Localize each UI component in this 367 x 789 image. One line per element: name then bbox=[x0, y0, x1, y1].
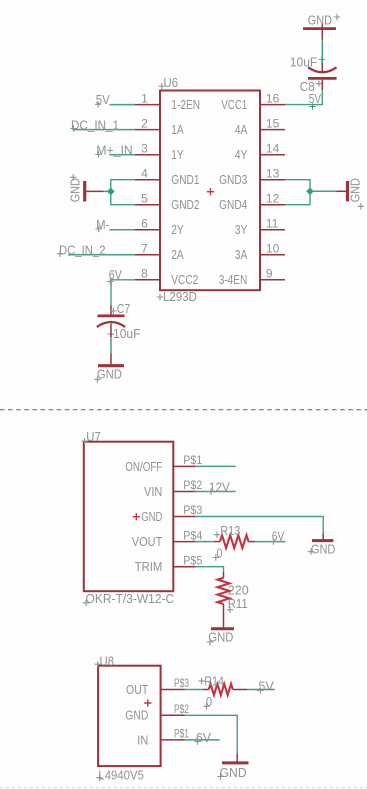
svg-text:R14: R14 bbox=[204, 673, 224, 688]
U6 pin 6 stub bbox=[135, 229, 160, 231]
capacitor C7 bbox=[98, 314, 125, 317]
svg-text:U6: U6 bbox=[164, 75, 179, 90]
wire U8 GND P$2 to ground bbox=[185, 715, 237, 753]
junction pins 4-5 bbox=[107, 188, 115, 196]
svg-text:0: 0 bbox=[216, 546, 222, 561]
R13 right lead bbox=[249, 541, 255, 543]
ground GND (U8) bbox=[222, 761, 249, 764]
faint dotted line at bottom bbox=[0, 787, 367, 789]
svg-text:DC_IN_2: DC_IN_2 bbox=[59, 242, 106, 257]
wire net 6V from R13 bbox=[255, 541, 286, 543]
U6 pin 7 stub bbox=[135, 254, 160, 256]
R11 zigzag bbox=[218, 578, 230, 604]
svg-text:4Y: 4Y bbox=[235, 147, 248, 162]
GND symbol pin (U7 P$3) bbox=[322, 533, 324, 539]
svg-text:IN: IN bbox=[137, 732, 148, 747]
wire net 6V at U8 IN bbox=[185, 739, 220, 741]
wire net 12V at U7 P$2 bbox=[196, 491, 236, 493]
U6 pin 14 stub bbox=[260, 154, 285, 156]
wire junction to GND1 symbol bbox=[104, 190, 111, 192]
U7 pin P$4 stub bbox=[173, 541, 195, 543]
wire net M+_IN to pin3 bbox=[109, 154, 135, 156]
M- label origin cross bbox=[96, 226, 102, 232]
R13 name origin cross bbox=[214, 532, 220, 538]
svg-text:GND: GND bbox=[311, 541, 336, 556]
svg-text:P$2: P$2 bbox=[174, 702, 189, 716]
svg-text:GND: GND bbox=[125, 708, 148, 723]
C8 top lead bbox=[321, 63, 323, 72]
wire net 5V from R14 bbox=[247, 689, 275, 691]
U7 pin P$2 stub bbox=[173, 491, 195, 493]
svg-text:VCC1: VCC1 bbox=[221, 97, 247, 112]
U8 pin P$1 stub bbox=[161, 739, 185, 741]
regulator U7 body (OKR-T/3-W12-C) bbox=[84, 442, 174, 592]
svg-text:3A: 3A bbox=[235, 247, 248, 262]
wire net 5V to pin1 bbox=[110, 104, 136, 106]
wire net at U7 P$1 bbox=[196, 465, 236, 467]
wire pin4 to gnd junction bbox=[111, 180, 135, 205]
svg-text:P$3: P$3 bbox=[183, 503, 202, 517]
U8 pin P$2 stub bbox=[161, 714, 185, 716]
GND symbol pin (left) bbox=[86, 190, 103, 192]
U8 name origin cross bbox=[95, 661, 101, 667]
U8 value origin cross bbox=[96, 775, 102, 781]
svg-text:VIN: VIN bbox=[144, 484, 162, 499]
svg-text:GND: GND bbox=[97, 367, 122, 382]
U6 pin 11 stub bbox=[260, 229, 285, 231]
U7 value origin cross bbox=[83, 600, 89, 606]
svg-text:3Y: 3Y bbox=[235, 222, 248, 237]
svg-text:P$4: P$4 bbox=[183, 528, 202, 542]
op-amp U6 body (L293D driver) bbox=[160, 91, 260, 291]
svg-text:1A: 1A bbox=[171, 122, 184, 137]
R14 zigzag bbox=[209, 684, 233, 695]
regulator U8 body (L4940V5) bbox=[98, 666, 161, 766]
svg-text:3: 3 bbox=[141, 142, 148, 156]
svg-text:GND1: GND1 bbox=[171, 172, 199, 187]
svg-text:OKR-T/3-W12-C: OKR-T/3-W12-C bbox=[86, 591, 175, 606]
U6 origin plus bbox=[207, 188, 214, 195]
R14 value origin cross bbox=[203, 703, 209, 709]
svg-text:GND4: GND4 bbox=[219, 197, 247, 212]
svg-text:U7: U7 bbox=[86, 429, 101, 444]
U7 pin P$5 stub bbox=[173, 566, 195, 568]
GND left origin cross bbox=[70, 174, 76, 180]
ground GND (right, pins 13-12) bbox=[346, 181, 349, 201]
5V label origin cross bbox=[95, 101, 101, 107]
wire U8 OUT to R14 bbox=[185, 689, 203, 691]
svg-text:C8: C8 bbox=[300, 79, 315, 94]
wire pins 13-12 to gnd junction (right) bbox=[285, 180, 310, 205]
svg-text:10: 10 bbox=[266, 242, 280, 256]
svg-text:7: 7 bbox=[141, 242, 148, 256]
svg-text:6: 6 bbox=[141, 217, 148, 231]
svg-text:2A: 2A bbox=[171, 247, 184, 262]
U6 pin 15 stub bbox=[260, 129, 285, 131]
U6 pin 10 stub bbox=[260, 254, 285, 256]
svg-text:R13: R13 bbox=[220, 523, 240, 538]
svg-text:1-2EN: 1-2EN bbox=[171, 97, 200, 112]
svg-text:DC_IN_1: DC_IN_1 bbox=[71, 117, 119, 132]
GND U8 origin cross bbox=[217, 773, 223, 779]
6V R13 label origin cross bbox=[270, 538, 276, 544]
R13 left lead bbox=[214, 541, 220, 543]
C8 value origin cross bbox=[319, 56, 325, 62]
svg-text:R11: R11 bbox=[228, 596, 248, 611]
svg-text:P$3: P$3 bbox=[174, 676, 189, 690]
U7 pin P$3 stub bbox=[173, 516, 195, 518]
ground GND (left, pins 4-5) bbox=[83, 181, 86, 202]
svg-text:10uF: 10uF bbox=[113, 326, 141, 341]
svg-text:VCC2: VCC2 bbox=[171, 272, 198, 287]
U6 pin 4 stub bbox=[135, 179, 160, 181]
ground GND (U7 P$3) bbox=[312, 539, 333, 542]
svg-text:TRIM: TRIM bbox=[135, 559, 163, 574]
svg-text:GND: GND bbox=[308, 13, 332, 28]
wire C8 to GND top bbox=[321, 40, 323, 64]
R11 top lead bbox=[223, 572, 225, 578]
R14 right lead bbox=[233, 689, 248, 691]
svg-text:P$5: P$5 bbox=[183, 553, 202, 567]
wire net DC_IN_1 to pin2 bbox=[73, 129, 136, 131]
junction pins 13-12 bbox=[306, 188, 314, 196]
svg-text:OUT: OUT bbox=[126, 682, 148, 697]
U7 name origin cross bbox=[81, 438, 87, 444]
svg-text:2: 2 bbox=[141, 116, 148, 130]
DC_IN_2 label origin cross bbox=[57, 251, 63, 257]
U6 pin 12 stub bbox=[260, 204, 285, 206]
svg-text:15: 15 bbox=[266, 116, 280, 130]
M+_IN label origin cross bbox=[95, 151, 101, 157]
svg-text:GND: GND bbox=[220, 765, 247, 780]
R11 name origin cross bbox=[227, 607, 233, 613]
svg-text:4A: 4A bbox=[235, 122, 248, 137]
svg-text:11: 11 bbox=[266, 217, 279, 231]
svg-text:1: 1 bbox=[141, 91, 148, 105]
GND U7 origin cross bbox=[308, 549, 314, 555]
12V label origin cross bbox=[208, 488, 214, 494]
svg-text:L4940V5: L4940V5 bbox=[98, 768, 143, 783]
svg-text:ON/OFF: ON/OFF bbox=[125, 459, 162, 474]
wire U7 P$5 to R11 bbox=[196, 567, 224, 572]
wire junction to GND right bbox=[310, 190, 336, 192]
svg-text:14: 14 bbox=[266, 142, 280, 156]
wire U7 P$4 to R13 bbox=[196, 541, 214, 543]
U8 origin plus bbox=[144, 699, 151, 706]
svg-text:16: 16 bbox=[266, 91, 280, 105]
U6 pin 13 stub bbox=[260, 179, 285, 181]
C7 name origin cross bbox=[110, 308, 116, 314]
svg-text:2Y: 2Y bbox=[171, 222, 184, 237]
svg-text:P$2: P$2 bbox=[183, 478, 202, 492]
GND symbol pin (U8) bbox=[236, 754, 238, 762]
R14 name origin cross bbox=[198, 678, 204, 684]
svg-text:GND3: GND3 bbox=[219, 172, 247, 187]
svg-text:1Y: 1Y bbox=[171, 147, 184, 162]
C8 bottom lead bbox=[321, 80, 323, 90]
wire net M- to pin6 bbox=[109, 229, 135, 231]
GND R11 origin cross bbox=[207, 639, 213, 645]
svg-text:C7: C7 bbox=[117, 301, 131, 316]
U6 pin 8 stub bbox=[135, 279, 160, 281]
svg-text:4: 4 bbox=[141, 167, 148, 181]
svg-text:12V: 12V bbox=[209, 480, 230, 495]
U6 pin 5 stub bbox=[135, 204, 160, 206]
U6 name origin cross bbox=[159, 83, 165, 89]
C7 top lead bbox=[110, 306, 112, 315]
svg-text:M+_IN: M+_IN bbox=[96, 142, 133, 157]
svg-text:12: 12 bbox=[266, 192, 280, 206]
svg-text:GND2: GND2 bbox=[171, 197, 199, 212]
6V U8 label origin cross bbox=[194, 738, 200, 744]
GND right origin cross bbox=[358, 203, 364, 209]
GND symbol pin (C7) bbox=[110, 354, 112, 365]
5V label origin cross bbox=[309, 103, 315, 109]
R14 left lead bbox=[203, 689, 209, 691]
svg-text:P$1: P$1 bbox=[183, 453, 202, 467]
L293D origin cross bbox=[157, 294, 163, 300]
ground GND (top right) bbox=[303, 27, 336, 30]
svg-text:5: 5 bbox=[141, 192, 148, 206]
U6 pin 16 stub bbox=[260, 104, 285, 106]
U7 origin plus bbox=[133, 513, 140, 520]
6V label origin cross bbox=[107, 278, 113, 284]
svg-text:3-4EN: 3-4EN bbox=[219, 272, 248, 287]
ground GND (below R11) bbox=[211, 627, 234, 630]
svg-text:13: 13 bbox=[266, 167, 280, 181]
R13 zigzag bbox=[220, 535, 249, 548]
5V R14 label origin cross bbox=[257, 687, 263, 693]
R11 bottom lead to GND bbox=[223, 604, 225, 627]
U7 pin P$1 stub bbox=[173, 465, 195, 467]
svg-text:U8: U8 bbox=[100, 653, 115, 668]
wire net GND at U7 P$3 bbox=[196, 517, 324, 534]
svg-text:6V: 6V bbox=[196, 730, 212, 745]
svg-text:10uF: 10uF bbox=[290, 55, 318, 70]
svg-text:GND: GND bbox=[141, 509, 162, 524]
svg-text:9: 9 bbox=[266, 267, 273, 281]
C8 name origin cross bbox=[316, 80, 322, 86]
C7 bottom lead bbox=[110, 324, 112, 338]
svg-text:8: 8 bbox=[141, 267, 148, 281]
GND C7 origin cross bbox=[94, 376, 100, 382]
U6 pin 1 stub bbox=[135, 104, 160, 106]
svg-text:GND: GND bbox=[347, 178, 362, 202]
GND symbol pin (top) bbox=[321, 24, 323, 40]
svg-text:VOUT: VOUT bbox=[132, 534, 163, 549]
wire net DC_IN_2 to pin7 bbox=[68, 254, 135, 256]
svg-text:GND: GND bbox=[67, 178, 82, 202]
svg-text:L293D: L293D bbox=[163, 289, 197, 304]
GND top origin cross bbox=[334, 14, 340, 20]
wire C7 to GND bbox=[110, 337, 112, 354]
C7 value origin cross bbox=[108, 331, 114, 337]
DC_IN_1 label origin cross bbox=[70, 125, 76, 131]
ground GND (below C7) bbox=[98, 364, 124, 367]
wire net 6V pin8 to capacitor C7 bbox=[111, 280, 135, 306]
U6 pin 3 stub bbox=[135, 154, 160, 156]
R13 value origin cross bbox=[213, 554, 219, 560]
dashed separator line bbox=[0, 409, 367, 411]
wire net 5V pin16 to capacitor C8 bbox=[285, 90, 322, 105]
U6 pin 2 stub bbox=[135, 129, 160, 131]
GND symbol pin (right) bbox=[336, 190, 346, 192]
U8 pin P$3 stub bbox=[161, 689, 185, 691]
U6 pin 9 stub bbox=[260, 279, 285, 281]
svg-text:P$1: P$1 bbox=[174, 727, 189, 741]
